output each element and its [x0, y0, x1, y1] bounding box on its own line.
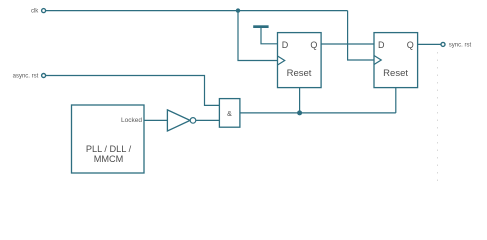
svg-text:D: D [282, 40, 289, 50]
wire constant to FF1 D [261, 28, 278, 44]
wire U1 Q to U2 D [321, 43, 374, 45]
svg-text:Q: Q [407, 40, 414, 50]
wire AND output reset net [240, 112, 396, 114]
svg-text:sync. rst: sync. rst [449, 43, 472, 49]
svg-text:&: & [227, 111, 232, 118]
page boundary dotted line [437, 52, 439, 184]
inverter U3 bubble [190, 118, 196, 124]
wire clk down to FF2 clock pin [348, 11, 374, 60]
svg-text:Locked: Locked [121, 117, 142, 124]
flip-flop U1 box [278, 33, 322, 88]
svg-text:MMCM: MMCM [94, 154, 124, 164]
svg-text:Q: Q [310, 40, 317, 50]
wire clk horizontal [46, 10, 348, 12]
wire U2 Q to output terminal [418, 43, 441, 45]
wire reset up to U2 bottom [395, 88, 397, 113]
clock triangle (U1) [278, 56, 285, 65]
svg-text:PLL / DLL /: PLL / DLL / [86, 144, 132, 154]
junction clk to FF1 clock [236, 8, 240, 12]
wire reset up to U1 bottom [299, 88, 301, 113]
constant-high tie bar [253, 25, 268, 28]
output terminal sync. rst [441, 42, 471, 48]
svg-text:clk: clk [31, 9, 39, 15]
flip-flop U2 box [374, 33, 418, 88]
svg-text:D: D [378, 40, 385, 50]
input terminal clk [31, 9, 46, 15]
wire clk down to FF1 clock pin [238, 11, 278, 61]
junction reset net to U1 [297, 110, 302, 115]
svg-text:async. rst: async. rst [13, 73, 39, 79]
AND gate box [219, 99, 240, 128]
PLL box [72, 105, 145, 173]
input terminal async. rst [13, 73, 46, 79]
clock triangle (U2) [374, 56, 381, 65]
svg-text:Reset: Reset [287, 68, 312, 79]
wire Locked to inverter [144, 119, 167, 121]
inverter U3 triangle [167, 110, 190, 131]
wire async. rst to AND input [46, 76, 220, 106]
svg-text:Reset: Reset [383, 68, 408, 79]
wire inverter to AND input [196, 119, 220, 121]
